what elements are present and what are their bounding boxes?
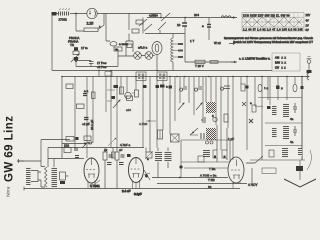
node b3 [156, 76, 158, 78]
wire fm h2 [265, 122, 302, 124]
resistor R10 [66, 84, 73, 89]
node b10 [301, 76, 303, 78]
node b2y [162, 76, 164, 78]
connector K1 [296, 166, 303, 171]
switch S1d [161, 13, 170, 21]
wire block h3 [184, 167, 228, 169]
wire v146 [145, 148, 147, 153]
svg-text:4.05/30: 4.05/30 [149, 14, 158, 18]
LA1 cross [135, 53, 140, 58]
node b2z [169, 76, 171, 78]
svg-text:A 7005 + Ba: A 7005 + Ba [200, 174, 217, 178]
switch box S2 [171, 134, 180, 142]
resistor R22 oval [293, 84, 297, 92]
tuning gang CV1 [206, 102, 216, 113]
antenna input plug [307, 60, 311, 64]
fuse F2 oval [110, 42, 117, 46]
svg-text:10: 10 [177, 23, 181, 27]
wire barretter ends [172, 34, 174, 71]
capacitor blob C48 [76, 137, 79, 140]
wire arrow mid [229, 43, 235, 45]
svg-text:Nora: Nora [6, 186, 12, 197]
coil L17 [155, 151, 162, 162]
svg-text:204: 204 [194, 13, 199, 17]
tube V2 envelope [129, 158, 144, 183]
svg-text:GW 69 Linz: GW 69 Linz [3, 116, 15, 182]
capacitor C40 [107, 163, 112, 165]
wire gnd [17, 160, 41, 162]
box S5 [146, 152, 152, 158]
bottom mid block [179, 140, 230, 178]
node b5 [208, 76, 210, 78]
resistor R21 oval [258, 84, 262, 92]
V2 grid [131, 168, 140, 170]
svg-text:+2 µF: +2 µF [82, 122, 90, 126]
trimmer arrow T1 [113, 100, 120, 108]
V3 anode [236, 160, 238, 167]
R6 taps [173, 44, 178, 57]
band table box [272, 53, 300, 71]
coil L12 [272, 128, 277, 138]
capacitor blob C43 [143, 85, 147, 88]
svg-text:0.1µF: 0.1µF [134, 192, 142, 196]
node b8 [261, 76, 263, 78]
resistor R4 [132, 29, 139, 33]
speaker yoke bracket [31, 171, 38, 182]
capacitor blob C46 [246, 86, 249, 89]
wire arrow heater [231, 61, 236, 63]
grid arrow V1 [82, 142, 88, 148]
capacitor blob C42 [127, 154, 131, 157]
wire s4 [246, 162, 255, 164]
dial table grid [242, 13, 304, 32]
brand text vertical [3, 116, 15, 197]
coil L11 [283, 103, 289, 117]
diode blob [145, 175, 148, 178]
table zigzag1 [242, 17, 302, 27]
squig mark [255, 106, 263, 107]
node c3 [75, 13, 77, 15]
svg-text:LW x x: LW x x [275, 66, 286, 70]
V3 grid [231, 169, 240, 171]
svg-text:a10: a10 [126, 108, 131, 112]
svg-text:2.25: 2.25 [87, 22, 94, 26]
wire mains input top [52, 13, 87, 15]
V4 inner [155, 44, 159, 52]
svg-text:ECH UKW EBF MW EM EL GW 6: ECH UKW EBF MW EM EL GW 69 [243, 14, 290, 17]
transformer primary zigzag [45, 167, 48, 187]
R6 tap pad2 [178, 50, 183, 52]
antenna plug blob [307, 70, 312, 73]
coil L15 [298, 148, 302, 156]
coil L18 [165, 151, 172, 162]
wire drops mid section [106, 71, 175, 148]
resistor R30 [64, 148, 71, 153]
wire arrow right top [231, 17, 235, 19]
potentiometer arrow P2 [108, 138, 116, 146]
resistor R5 [114, 47, 122, 51]
svg-text:1 T: 1 T [190, 39, 194, 43]
capacitor C31 [75, 156, 79, 158]
node b1 [110, 70, 112, 72]
node d1 [179, 177, 181, 179]
output blob [60, 181, 65, 184]
wire to tube1 [66, 175, 69, 177]
capacitor blob C44 [156, 85, 160, 88]
svg-text:T BB: T BB [208, 178, 215, 182]
wire drops left section [75, 71, 99, 159]
relay box small [127, 44, 132, 48]
coil L4 [201, 117, 205, 123]
switch block top: vertical [128, 13, 130, 30]
capacitor C22 [293, 126, 297, 136]
antenna clamp curve [307, 73, 309, 80]
coil L13 [283, 126, 289, 140]
wire secondary heater [185, 61, 237, 63]
wire bottom frame [24, 188, 240, 190]
node C3 [184, 17, 186, 19]
U1 cathode dot [89, 13, 91, 15]
wire block h2 [181, 161, 230, 163]
resistor R32 [115, 152, 119, 160]
svg-text:T Ba: T Ba [209, 167, 216, 171]
svg-text:4a: 4a [290, 117, 294, 121]
resistor R26 [222, 150, 227, 158]
tube V1V2 coupling parts [103, 125, 276, 189]
wire v3 tops [217, 125, 227, 162]
capacitor C9 blob [160, 85, 165, 88]
IF transformer boxes on bus [136, 72, 167, 81]
coil L16 [203, 150, 210, 158]
marks M1 [201, 133, 204, 139]
wire fm h4 [250, 159, 305, 161]
capacitor C23 blob [267, 106, 271, 109]
box bottom right [262, 168, 276, 174]
wire fm h1 [258, 97, 302, 99]
resistor R12 box [77, 104, 85, 109]
node c2 [156, 70, 158, 72]
svg-text:10: 10 [208, 185, 212, 189]
LA2 cross [146, 53, 151, 58]
capacitor C2 [89, 61, 94, 67]
fuse coil L1 [58, 12, 70, 16]
capacitor C1a blob [74, 47, 78, 50]
capacitor blob C47 [301, 86, 304, 89]
tube V3 envelope [228, 157, 244, 183]
wire bottom links [150, 148, 168, 178]
IF1 slug2 [142, 74, 145, 80]
V3 cathode [233, 175, 240, 179]
node a2 [61, 76, 63, 78]
box G1 [127, 96, 133, 101]
S5 arrow [145, 151, 153, 159]
node c1 [98, 70, 100, 72]
wire af h2 [48, 147, 144, 149]
wire fm h3 [265, 145, 302, 147]
R26 slug [224, 156, 226, 159]
wire dropper tap [76, 14, 84, 32]
wire left frame drop [51, 14, 53, 71]
svg-text:4 HOY: 4 HOY [248, 183, 258, 187]
svg-text:0V: 0V [306, 28, 309, 32]
band table rows [275, 56, 286, 70]
node b6 [232, 76, 234, 78]
capacitor C1b blob [74, 57, 78, 60]
circles on top [206, 141, 209, 144]
wire af v1 [40, 140, 42, 167]
heater chain: lamp fuse oval [106, 13, 110, 41]
node b4 [184, 76, 186, 78]
trimmer arrow T3 [196, 103, 202, 110]
capacitor C32 [109, 155, 113, 157]
capacitor C21 [293, 103, 297, 113]
table verticals [246, 13, 298, 32]
resistor R24 [269, 150, 274, 157]
node S3 [192, 132, 194, 134]
scale lamp LA2 [145, 52, 153, 60]
main vertical drops group [75, 71, 302, 161]
audio output section [17, 137, 144, 187]
resistor R3 [136, 20, 143, 24]
output load box [60, 172, 66, 180]
resistor R41 [224, 114, 228, 122]
wire bus1 [52, 70, 272, 72]
node grid [84, 142, 86, 144]
junction dots on bus2 [61, 13, 303, 78]
svg-text:a2: a2 [104, 148, 108, 152]
node S1 [160, 17, 162, 19]
R6 tap pads [178, 43, 183, 45]
resistor R7 [195, 60, 205, 63]
wire switch verticals [126, 34, 133, 57]
capacitor C41 [119, 163, 124, 165]
potentiometer R2 arrow [71, 54, 79, 62]
V1 cathode [88, 174, 95, 178]
wire v113 [112, 148, 114, 159]
wire stub h90 [107, 90, 135, 96]
V1 grid arrow [95, 180, 100, 184]
node b2x [135, 76, 137, 78]
wire lamp chain [118, 51, 134, 67]
coil L3 [220, 86, 230, 90]
R6 tap pad3 [178, 56, 183, 58]
wire C1 to C2 [76, 60, 91, 66]
wire af top [41, 139, 70, 141]
wire switch lower [143, 18, 185, 34]
scale lamp LA1 [134, 52, 142, 60]
svg-text:µ: µ [281, 86, 283, 90]
capacitor C4 [207, 25, 211, 28]
resistor R31 [103, 152, 107, 160]
V3 pins [233, 181, 240, 189]
wire C3 drop [184, 18, 186, 63]
resistor R25 [213, 150, 217, 158]
svg-text:4V: 4V [306, 19, 309, 23]
magic eye tube V4 [152, 42, 162, 55]
speaker magnet bar [26, 168, 31, 186]
box under C1a [73, 51, 79, 55]
svg-text:2.4 aF: 2.4 aF [122, 189, 131, 193]
capacitor C11 pair [194, 87, 202, 91]
V2 pins [133, 180, 140, 189]
small box inner [198, 156, 204, 162]
wire drops osc section [180, 77, 233, 161]
svg-text:T 20 V: T 20 V [195, 64, 204, 68]
FM box internals [241, 77, 316, 188]
node b2w [176, 76, 178, 78]
capacitor C5 [83, 94, 87, 96]
wire af lines right [152, 168, 252, 184]
svg-text:a/0.3 a: a/0.3 a [138, 46, 148, 50]
IF1 slug1 [138, 74, 141, 80]
wire bus2 [62, 76, 309, 78]
electrolytic C13 [158, 130, 163, 139]
node b9 [286, 76, 288, 78]
capacitor blob C45 [169, 86, 173, 89]
dial cord curve [307, 150, 311, 170]
resistor R1 [84, 28, 98, 32]
resistor R20 [241, 84, 245, 91]
coil L10 [272, 105, 277, 115]
wire spk top [38, 167, 45, 188]
capacitor C30 [74, 148, 78, 150]
IF2 slug1 [159, 74, 162, 80]
svg-text:U 7301: U 7301 [90, 184, 100, 188]
capacitor C10 pair [179, 87, 187, 91]
resistor R14 [84, 136, 91, 141]
wire R1 diag [98, 14, 104, 30]
svg-text:17 to: 17 to [81, 46, 88, 50]
switch S1a [139, 19, 147, 26]
capacitor C20 blob [276, 86, 280, 90]
wire af h3 [48, 158, 84, 160]
svg-text:102: 102 [64, 144, 69, 148]
IF transformer IF2 [157, 72, 167, 81]
svg-text:4n: 4n [115, 47, 119, 51]
transistor circle G1 [125, 92, 131, 98]
resistor R23 [252, 105, 256, 112]
svg-text:Spannungswerte und Strome geme: Spannungswerte und Strome gemessen mit R… [224, 36, 314, 40]
svg-text:17062: 17062 [59, 18, 68, 22]
table right labels [306, 13, 311, 32]
svg-text:AM x x: AM x x [275, 56, 286, 60]
svg-text:2,1 64 97 1,4 82 2,0 47 1,9 10: 2,1 64 97 1,4 82 2,0 47 1,9 105 3,6 88 2… [243, 28, 303, 31]
plug P1 [52, 12, 57, 16]
coupling box on buses [105, 72, 112, 77]
wire C4 drop [208, 18, 210, 41]
svg-text:1 µF: 1 µF [228, 137, 234, 141]
svg-text:21V: 21V [306, 13, 311, 17]
resistor R13 [66, 137, 74, 142]
tuning gang CV2 [206, 128, 216, 140]
wire eye drop [156, 55, 158, 71]
wire block top [181, 140, 230, 177]
antenna plug dashes [307, 57, 312, 59]
capacitor C33 [121, 155, 125, 157]
node a1 [75, 59, 78, 62]
U1 anode arc [90, 11, 96, 17]
svg-text:aF: aF [119, 148, 123, 152]
wire heater bus [91, 66, 118, 68]
node big [179, 165, 182, 168]
capacitor C12 [249, 119, 253, 123]
node b2 [142, 76, 144, 78]
V2 cathode [133, 174, 140, 178]
capacitor C3 [182, 23, 187, 26]
svg-text:4.7: 4.7 [88, 141, 93, 145]
wire k1 drop [299, 160, 301, 180]
C13 stripe [159, 130, 161, 139]
choke L2 [221, 16, 231, 18]
ground sym G [17, 159, 24, 163]
rectifier tube U1 [87, 8, 97, 18]
dipole antenna symbol [284, 179, 316, 187]
wire v legs [105, 148, 117, 189]
IF2 slug2 [163, 74, 166, 80]
svg-text:a. d. L/M/K/W Bandfilter u.: a. d. L/M/K/W Bandfilter u. [239, 57, 271, 61]
wire fm right frame [301, 77, 303, 161]
wire stub agc arrow [146, 120, 156, 122]
switch S6 [246, 162, 255, 164]
svg-text:20.1 µF: 20.1 µF [90, 120, 94, 130]
V1 pins [88, 181, 95, 189]
switch S1b [144, 24, 152, 31]
extra dense marks [104, 85, 304, 165]
svg-text:4.7/20: 4.7/20 [139, 122, 148, 126]
tube V1 envelope [84, 158, 99, 183]
tubes bottom [84, 157, 244, 196]
svg-text:1V: 1V [306, 24, 309, 28]
resistor R11 [92, 92, 96, 99]
resistor R16 [135, 90, 139, 97]
S2 cross [171, 134, 180, 142]
diode D1 [144, 170, 150, 180]
svg-text:4a: 4a [290, 140, 294, 144]
coil L5 circle [213, 117, 217, 121]
svg-text:Betrieb bei 220V Netzspannung: Betrieb bei 220V Netzspannung Wellenbere… [233, 40, 313, 44]
node mains junction [75, 13, 77, 15]
switch S4 [255, 156, 263, 163]
coil L14 [282, 148, 288, 158]
wire af v2 [48, 148, 54, 168]
svg-text:4.7nF a: 4.7nF a [120, 143, 131, 147]
svg-text:W x2: W x2 [214, 41, 221, 45]
IF transformer IF1 [136, 72, 146, 81]
wire bottom tick left [23, 187, 25, 191]
resistor R40 [112, 152, 116, 158]
wire left inner frame [61, 77, 63, 159]
circle2 [210, 141, 213, 144]
switch S1c [158, 22, 166, 30]
antenna plug stem [308, 63, 310, 70]
resistor R15 [120, 87, 124, 94]
svg-text:1 µ: 1 µ [264, 86, 269, 90]
barretter R6 coil [171, 38, 173, 62]
table zigzag2 [242, 17, 302, 27]
svg-text:a n: a n [84, 89, 89, 93]
capacitor C8 blob [112, 96, 116, 99]
node b7 [246, 76, 248, 78]
wire top secondary [147, 17, 237, 19]
transformer secondary coil [52, 167, 58, 187]
wire U1 right [97, 14, 161, 18]
capacitor C6 [84, 118, 89, 120]
wire stub h100 [107, 100, 112, 102]
resistor R8 [210, 61, 218, 64]
V2 anode [135, 158, 137, 165]
label L1 ticks [59, 9, 70, 11]
R25 slug [214, 156, 216, 159]
